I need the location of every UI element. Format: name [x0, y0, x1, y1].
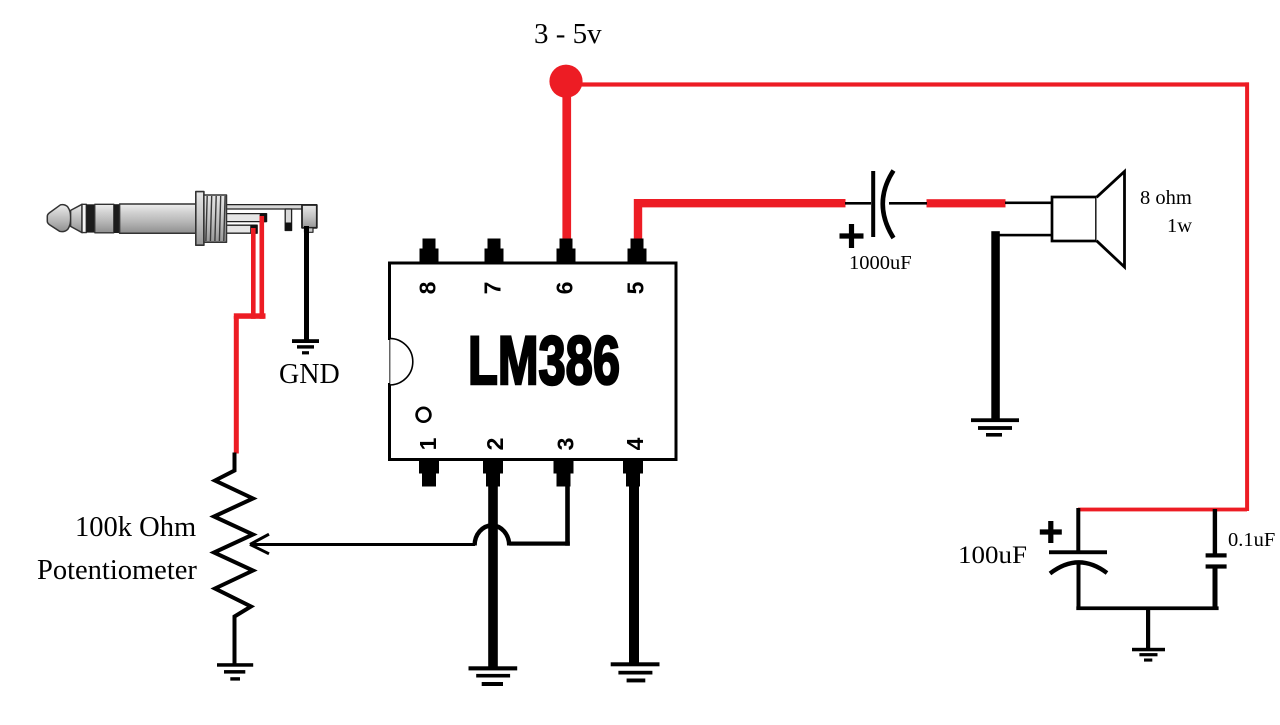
jack threaded section — [204, 195, 227, 242]
svg-text:6: 6 — [552, 282, 578, 295]
jack middle stub — [285, 209, 291, 231]
svg-text:100k Ohm: 100k Ohm — [75, 512, 196, 543]
wire: black lead into C1 left — [845, 202, 871, 205]
svg-text:GND: GND — [279, 359, 340, 390]
jack top sleeve strip — [226, 205, 317, 209]
wire: +V rail top horizontal (red) — [566, 82, 1249, 86]
wire: jack junction horizontal (red) — [234, 313, 266, 319]
svg-text:100uF: 100uF — [958, 542, 1027, 569]
svg-text:3 - 5v: 3 - 5v — [534, 18, 602, 50]
jack black band 2 — [114, 204, 120, 233]
jack tip lug hole — [250, 225, 257, 234]
wire hop arc over pin-2 wire — [475, 526, 510, 546]
jack tip cone — [47, 205, 71, 232]
jack ring section — [95, 204, 114, 233]
wire: C1 to speaker top terminal — [1005, 202, 1052, 205]
plus sign C2 — [1040, 521, 1062, 543]
svg-text:0.1uF: 0.1uF — [1228, 529, 1275, 551]
ground: potentiometer — [217, 663, 253, 680]
wire: jack tip lead down (red) — [251, 228, 256, 319]
svg-text:7: 7 — [480, 282, 506, 295]
svg-text:2: 2 — [482, 438, 508, 451]
wire: black lead out of C1 right — [889, 202, 927, 205]
wire: +V rail right side vertical (red) — [1245, 82, 1249, 511]
wire: bypass bottom rail — [1076, 606, 1218, 610]
IC pin 7 — [480, 239, 506, 295]
IC pin 5 — [623, 239, 649, 295]
IC pin 8 — [415, 239, 441, 295]
IC pin 1 indicator hole — [417, 408, 431, 422]
wire: pin 4 to ground (thick black) — [629, 486, 639, 664]
jack sleeve block — [302, 205, 317, 228]
svg-text:Potentiometer: Potentiometer — [37, 555, 197, 586]
svg-text:1: 1 — [415, 437, 441, 450]
speaker LS1 — [1052, 172, 1125, 268]
capacitor C2 100uF — [1049, 508, 1107, 610]
jack second cone — [71, 204, 82, 232]
wire: jack ring lead down (red) — [260, 216, 265, 319]
svg-text:8 ohm: 8 ohm — [1140, 187, 1192, 209]
svg-text:LM386: LM386 — [468, 322, 620, 399]
svg-text:8: 8 — [415, 281, 441, 294]
wire: jack sleeve to ground (black) — [304, 226, 309, 341]
wire: bypass rail to ground stem — [1146, 608, 1150, 650]
IC U1 LM386 body — [390, 263, 677, 460]
audio jack plug J1 — [47, 192, 317, 246]
wire: +V down to pin 6 (red) — [562, 81, 571, 242]
wire: pin 3 down and left to wiper — [509, 486, 570, 546]
wire: pin 2 to ground (thick black) — [488, 486, 498, 668]
jack tip lug bar — [226, 225, 257, 233]
IC pin 1 — [415, 437, 441, 486]
IC pin 3 — [553, 438, 579, 487]
ground: pin 4 — [611, 662, 660, 682]
svg-text:3: 3 — [553, 438, 579, 451]
wire: junction down to potentiometer (red) — [234, 316, 239, 454]
wire: output red segment after capacitor — [927, 199, 1006, 207]
jack barrel — [120, 204, 196, 233]
IC pin 2 — [482, 438, 508, 487]
svg-text:5: 5 — [623, 281, 649, 294]
jack white ring — [82, 204, 86, 232]
capacitor C3 0.1uF — [1206, 509, 1227, 610]
capacitor C1 1000uF plates — [871, 171, 893, 239]
potentiometer R1 100k zigzag — [214, 453, 253, 664]
svg-text:1000uF: 1000uF — [849, 252, 912, 274]
wire: +V to C2/C3 horizontal bottom (red) — [1078, 508, 1247, 512]
svg-text:1w: 1w — [1167, 215, 1192, 237]
wire: speaker return to ground (thick black) — [991, 231, 1000, 419]
IC pin 6 — [552, 239, 578, 295]
ground: jack GND — [292, 339, 319, 354]
jack ring lug hole — [260, 213, 267, 222]
wire: speaker bottom terminal — [997, 234, 1052, 237]
IC notch — [390, 338, 413, 385]
ground: speaker return — [971, 418, 1019, 436]
wire: pin 5 output up and right (red) — [638, 203, 846, 242]
jack ring lug bar — [226, 214, 267, 222]
IC pin 4 — [622, 437, 648, 486]
node: 3-5v power junction dot — [549, 65, 582, 98]
jack collar washer — [196, 192, 204, 246]
ground: pin 2 — [469, 666, 518, 686]
jack black band 1 — [86, 204, 95, 232]
potentiometer wiper arrow — [250, 534, 475, 554]
ground: bypass — [1132, 648, 1165, 662]
plus sign C1 — [840, 224, 864, 248]
svg-text:4: 4 — [622, 437, 648, 450]
